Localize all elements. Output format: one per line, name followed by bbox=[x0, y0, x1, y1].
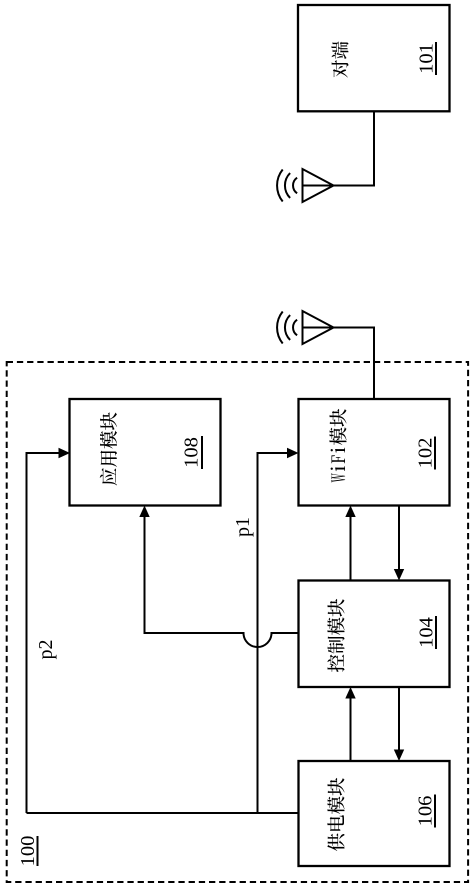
svg-text:p2: p2 bbox=[35, 640, 57, 660]
svg-text:101: 101 bbox=[416, 43, 438, 74]
svg-text:p1: p1 bbox=[232, 517, 254, 537]
svg-text:108: 108 bbox=[181, 437, 203, 468]
svg-text:104: 104 bbox=[416, 617, 438, 648]
svg-text:106: 106 bbox=[415, 796, 437, 827]
svg-text:100: 100 bbox=[17, 836, 39, 867]
svg-text:102: 102 bbox=[415, 438, 437, 469]
